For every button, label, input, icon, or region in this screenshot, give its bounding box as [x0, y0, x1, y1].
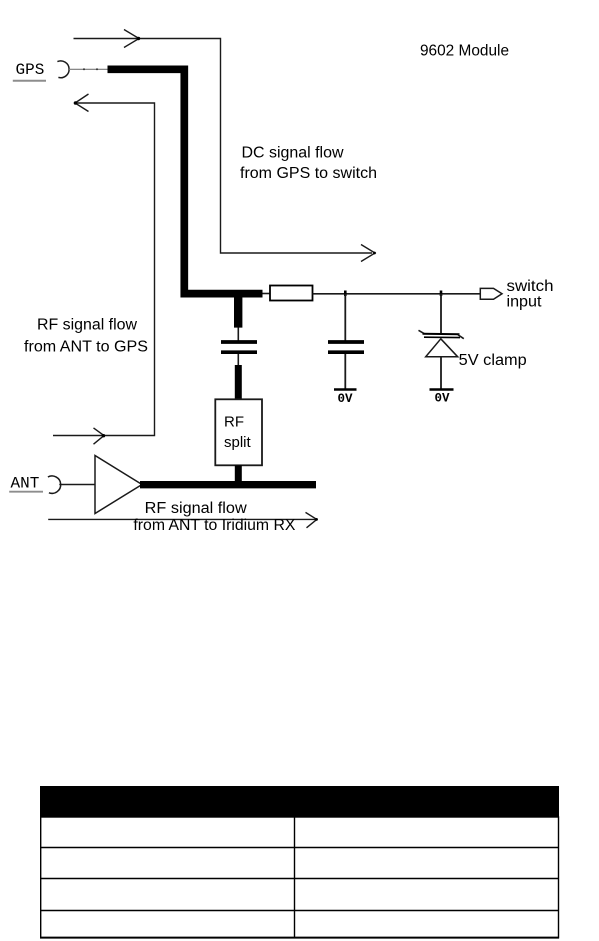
label: 0V (under C2) [338, 392, 354, 406]
thick stub: junction T down toward capacitor C1 [234, 290, 242, 328]
capacitor C1 bottom plate [221, 350, 257, 354]
capacitor C2 top plate [328, 340, 364, 344]
label: DC signal flow [242, 145, 345, 162]
svg-text:switch: switch [507, 278, 554, 295]
svg-text:ANT: ANT [11, 475, 40, 493]
wire: zener to ground [440, 357, 442, 389]
node: junction at zener [440, 291, 443, 297]
label: input [507, 294, 543, 311]
svg-text:input: input [507, 294, 543, 311]
label: 0V (under zener) [435, 392, 451, 406]
label: from ANT to Iridium RX [133, 517, 296, 534]
svg-text:from GPS to switch: from GPS to switch [240, 165, 377, 182]
label: 9602 Module [420, 43, 509, 60]
label: from ANT to GPS [24, 339, 148, 356]
wire: DC signal flow path from GPS line to switch [74, 39, 373, 254]
wire: ANT connector to amplifier [59, 484, 95, 486]
table: row line 3 [40, 910, 559, 912]
svg-text:from ANT to Iridium RX: from ANT to Iridium RX [133, 517, 296, 534]
svg-text:DC signal flow: DC signal flow [242, 145, 345, 162]
node: junction at C2 [344, 291, 347, 297]
svg-text:0V: 0V [435, 392, 451, 406]
thick RF trace: amplifier to Iridium RX [140, 481, 316, 488]
svg-text:0V: 0V [338, 392, 354, 406]
table: row line 2 [40, 878, 559, 880]
underline under ANT [9, 491, 43, 493]
label: RF signal flow (bottom) [145, 500, 248, 517]
table: row line 1 [40, 847, 559, 849]
box: RF split [215, 399, 262, 465]
svg-text:RF signal flow: RF signal flow [145, 500, 248, 517]
capacitor C2 bottom plate [328, 350, 364, 354]
label: RF signal flow (left) [37, 317, 138, 334]
zener diode D1 triangle [426, 339, 458, 357]
resistor R1 (series element to switch input) [263, 286, 313, 301]
thick RF trace: GPS to junction (down and right) [108, 69, 263, 293]
capacitor C1 top plate [221, 340, 257, 344]
wire: stub to capacitor C1 [237, 328, 239, 341]
arrowhead: RF loop end pointing left at GPS [74, 94, 89, 112]
ground: 0V under C2 [334, 388, 357, 391]
label: GPS [16, 61, 45, 79]
label: 5V clamp [459, 352, 527, 369]
wire: GPS connector to thick trace [69, 68, 108, 70]
connector: ANT RF port (open arc) [48, 476, 61, 493]
label: split (in box) [224, 434, 252, 451]
wire: resistor to switch input connector [313, 293, 481, 295]
svg-text:5V clamp: 5V clamp [459, 352, 527, 369]
table: column divider [294, 817, 296, 938]
connector: switch input tag [480, 288, 502, 299]
label: switch [507, 278, 554, 295]
wire: junction down to zener D1 [440, 294, 442, 333]
svg-text:RF signal flow: RF signal flow [37, 317, 138, 334]
label: from GPS to switch [240, 165, 377, 182]
label: RF (in box) [224, 413, 244, 430]
arrowhead: mid DC flow chevron pointing right [124, 30, 140, 48]
wire: C1 to thick stub [237, 354, 239, 366]
connector: GPS RF port (open arc) [57, 61, 69, 78]
svg-text:RF: RF [224, 413, 244, 430]
svg-text:split: split [224, 434, 252, 451]
wire: RF signal flow arrow to Iridium RX [48, 518, 316, 520]
arrowhead: Iridium RX arrow pointing right [306, 512, 318, 527]
amplifier U1 triangle (LNA) [95, 456, 142, 514]
ground: 0V under zener [430, 388, 454, 391]
svg-text:from ANT to GPS: from ANT to GPS [24, 339, 148, 356]
thick stub: into RF split box [235, 365, 242, 400]
svg-text:GPS: GPS [16, 61, 45, 79]
thick stub: RF split box down to RF trace [235, 465, 242, 483]
table: header row (black) [40, 786, 559, 817]
arrowhead: DC flow end pointing right [361, 245, 376, 262]
label: ANT [11, 475, 40, 493]
wire: junction down to capacitor C2 [344, 294, 346, 341]
table: outer border [41, 817, 559, 938]
svg-text:9602 Module: 9602 Module [420, 43, 509, 60]
underline under GPS [13, 80, 46, 82]
table: bottom border [40, 937, 559, 939]
wire: RF signal flow loop from ANT to GPS [53, 103, 155, 436]
wire: C2 to ground [344, 354, 346, 389]
zener diode D1 cathode bar (5V clamp) [419, 330, 464, 338]
arrowhead: mid RF loop chevron pointing right [94, 428, 106, 444]
